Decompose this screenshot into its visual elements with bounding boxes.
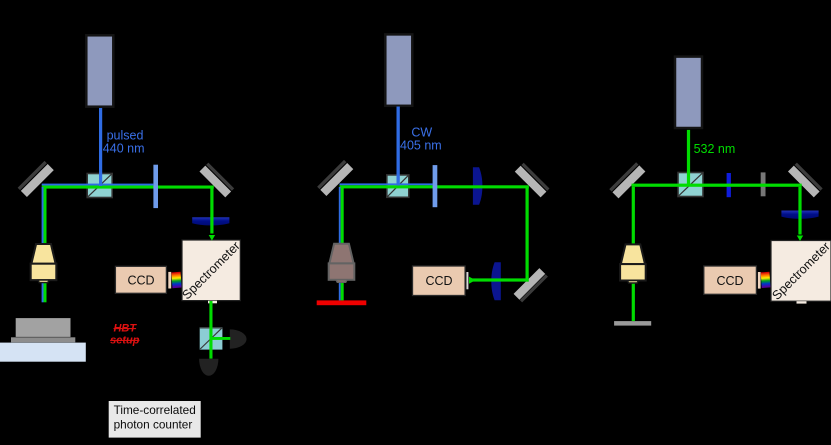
- svg-text:CCD: CCD: [425, 274, 452, 288]
- svg-text:532 nm: 532 nm: [694, 142, 736, 156]
- svg-text:CCD: CCD: [716, 274, 743, 288]
- svg-text:440 nm: 440 nm: [103, 142, 145, 156]
- svg-text:CCD: CCD: [127, 273, 154, 287]
- svg-text:405 nm: 405 nm: [400, 139, 442, 153]
- svg-text:Time-correlated: Time-correlated: [114, 403, 196, 417]
- svg-text:CW: CW: [411, 125, 432, 139]
- svg-text:HBT: HBT: [113, 323, 137, 335]
- svg-text:pulsed: pulsed: [107, 129, 144, 143]
- svg-text:photon counter: photon counter: [114, 418, 193, 432]
- svg-text:setup: setup: [110, 334, 140, 346]
